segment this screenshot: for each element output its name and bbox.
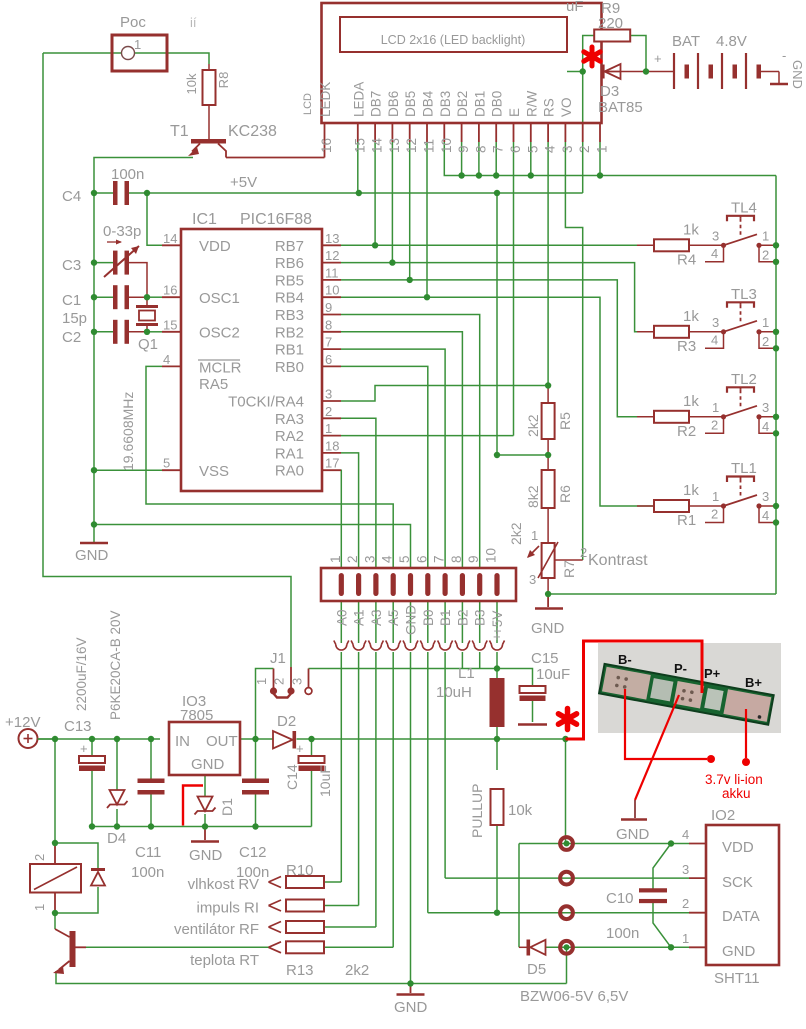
svg-text:10uF: 10uF (317, 765, 333, 797)
svg-text:C3: C3 (62, 257, 81, 274)
svg-text:9: 9 (466, 555, 481, 563)
svg-text:8: 8 (325, 317, 332, 332)
svg-text:+12V: +12V (5, 714, 40, 731)
svg-text:2: 2 (577, 145, 592, 153)
svg-text:D3: D3 (600, 83, 619, 100)
svg-text:10uH: 10uH (436, 684, 472, 701)
svg-text:+: + (296, 741, 304, 756)
svg-text:3: 3 (762, 400, 769, 415)
svg-text:11: 11 (325, 265, 339, 280)
svg-text:DB6: DB6 (386, 91, 401, 117)
svg-text:100n: 100n (111, 166, 144, 183)
svg-text:2: 2 (762, 247, 769, 262)
svg-text:E: E (507, 108, 522, 117)
svg-text:R6: R6 (557, 485, 573, 503)
svg-text:RB2: RB2 (275, 324, 304, 341)
svg-text:2k2: 2k2 (525, 414, 541, 437)
svg-text:13: 13 (325, 231, 339, 246)
svg-text:3: 3 (762, 489, 769, 504)
svg-text:3: 3 (712, 228, 719, 243)
svg-text:B1: B1 (438, 609, 453, 626)
svg-text:16: 16 (163, 283, 177, 298)
svg-text:2: 2 (272, 678, 287, 685)
svg-text:Kontrast: Kontrast (588, 552, 648, 569)
svg-text:RA2: RA2 (275, 428, 304, 445)
svg-text:OUT: OUT (206, 733, 238, 750)
svg-text:LCD 2x16 (LED backlight): LCD 2x16 (LED backlight) (381, 33, 526, 47)
svg-text:DB4: DB4 (421, 90, 436, 117)
svg-text:16: 16 (319, 138, 334, 153)
svg-text:T0CKI/RA4: T0CKI/RA4 (228, 394, 304, 411)
svg-text:C2: C2 (62, 329, 81, 346)
svg-text:RA0: RA0 (275, 463, 304, 480)
svg-text:19.6608MHz: 19.6608MHz (120, 392, 136, 471)
svg-text:R4: R4 (677, 251, 696, 268)
svg-text:2k2: 2k2 (345, 962, 369, 979)
svg-text:3: 3 (529, 572, 536, 587)
svg-text:RB0: RB0 (275, 359, 304, 376)
svg-text:Q1: Q1 (138, 336, 158, 353)
svg-text:4: 4 (762, 508, 769, 523)
svg-text:4: 4 (711, 246, 718, 261)
svg-text:+: + (80, 741, 88, 756)
svg-text:1: 1 (712, 489, 719, 504)
svg-text:+5V: +5V (490, 611, 505, 635)
svg-text:15p: 15p (62, 310, 87, 327)
svg-text:GND: GND (790, 60, 805, 89)
svg-text:1: 1 (712, 400, 719, 415)
svg-text:2200uF/16V: 2200uF/16V (74, 637, 89, 711)
svg-text:1: 1 (762, 315, 769, 330)
svg-text:RB7: RB7 (275, 238, 304, 255)
svg-text:7: 7 (491, 145, 506, 153)
svg-text:2: 2 (580, 545, 587, 560)
svg-text:BAT: BAT (672, 33, 700, 50)
svg-text:VDD: VDD (722, 839, 754, 856)
svg-text:1: 1 (32, 904, 47, 911)
svg-text:3: 3 (325, 387, 332, 402)
svg-text:P-: P- (674, 661, 687, 676)
svg-text:1k: 1k (683, 221, 699, 238)
svg-text:GND: GND (616, 826, 650, 843)
svg-text:2: 2 (32, 854, 47, 861)
svg-text:2: 2 (762, 334, 769, 349)
svg-text:15: 15 (163, 317, 177, 332)
svg-text:A5: A5 (386, 609, 401, 626)
svg-text:SHT11: SHT11 (714, 970, 760, 987)
svg-text:12: 12 (404, 138, 419, 153)
svg-text:4: 4 (711, 332, 718, 347)
svg-text:C14: C14 (284, 764, 300, 790)
svg-text:RB5: RB5 (275, 272, 304, 289)
svg-text:DB2: DB2 (455, 91, 470, 117)
svg-text:11: 11 (422, 139, 437, 153)
svg-text:100n: 100n (606, 925, 639, 942)
svg-text:IC1: IC1 (192, 211, 217, 228)
svg-text:D1: D1 (219, 798, 235, 816)
svg-text:8: 8 (449, 555, 464, 563)
svg-text:B0: B0 (421, 609, 436, 626)
svg-text:GND: GND (722, 943, 756, 960)
svg-text:RA1: RA1 (275, 445, 304, 462)
svg-text:6: 6 (325, 352, 332, 367)
svg-text:impuls RI: impuls RI (196, 900, 259, 917)
svg-text:2: 2 (345, 555, 360, 563)
svg-text:T1: T1 (170, 123, 189, 140)
svg-text:1: 1 (762, 228, 769, 243)
svg-text:15: 15 (352, 138, 367, 153)
svg-text:OSC2: OSC2 (199, 325, 240, 342)
svg-text:13: 13 (387, 138, 402, 153)
svg-text:14: 14 (163, 231, 177, 246)
svg-text:VO: VO (559, 97, 574, 117)
svg-text:R13: R13 (286, 962, 314, 979)
svg-text:18: 18 (325, 438, 339, 453)
svg-text:J1: J1 (270, 650, 286, 667)
svg-text:3: 3 (560, 145, 575, 153)
svg-text:BZW06-5V 6,5V: BZW06-5V 6,5V (520, 988, 628, 1005)
svg-text:3.7v li-ion: 3.7v li-ion (705, 772, 763, 787)
svg-text:1: 1 (328, 555, 343, 563)
svg-text:B3: B3 (473, 609, 488, 626)
svg-text:14: 14 (370, 137, 385, 153)
svg-text:10k: 10k (184, 73, 199, 94)
svg-text:PULLUP: PULLUP (469, 784, 485, 838)
svg-text:SCK: SCK (722, 874, 753, 891)
svg-text:6: 6 (508, 145, 523, 153)
svg-text:RA5: RA5 (199, 376, 228, 393)
svg-text:C4: C4 (62, 188, 81, 205)
svg-text:2: 2 (711, 507, 718, 522)
svg-text:Poc: Poc (120, 14, 146, 31)
svg-text:P+: P+ (704, 666, 721, 681)
svg-text:DB3: DB3 (438, 91, 453, 117)
svg-text:C12: C12 (239, 844, 267, 861)
svg-text:A1: A1 (352, 609, 367, 626)
svg-text:B+: B+ (745, 675, 762, 690)
svg-text:BAT85: BAT85 (598, 99, 643, 116)
svg-text:R5: R5 (557, 412, 573, 430)
svg-text:TL1: TL1 (731, 460, 757, 477)
svg-text:3: 3 (682, 862, 689, 877)
svg-text:VDD: VDD (199, 238, 231, 255)
svg-text:RB4: RB4 (275, 290, 304, 307)
svg-text:7805: 7805 (180, 707, 213, 724)
svg-text:D4: D4 (107, 830, 126, 847)
svg-text:4: 4 (543, 145, 558, 153)
svg-text:5: 5 (525, 145, 540, 153)
svg-text:L1: L1 (458, 665, 475, 682)
svg-text:8k2: 8k2 (525, 485, 541, 508)
svg-text:C15: C15 (531, 650, 559, 667)
svg-text:GND: GND (531, 620, 565, 637)
svg-text:IO2: IO2 (711, 807, 735, 824)
svg-text:5: 5 (397, 555, 412, 563)
svg-text:VSS: VSS (199, 463, 229, 480)
svg-text:RB1: RB1 (275, 342, 304, 359)
svg-text:P6KE20CA-B 20V: P6KE20CA-B 20V (108, 610, 123, 720)
svg-text:GND: GND (404, 605, 419, 635)
svg-text:RB6: RB6 (275, 255, 304, 272)
svg-text:3: 3 (290, 678, 305, 685)
svg-text:7: 7 (325, 335, 332, 350)
svg-text:ventilátor RF: ventilátor RF (174, 921, 259, 938)
svg-text:5: 5 (163, 456, 170, 471)
svg-text:RB3: RB3 (275, 307, 304, 324)
svg-text:3: 3 (362, 555, 377, 563)
svg-text:C13: C13 (64, 718, 92, 735)
svg-text:A0: A0 (334, 609, 349, 626)
svg-text:8: 8 (473, 145, 488, 153)
svg-text:C10: C10 (606, 890, 634, 907)
svg-text:LEDK: LEDK (318, 82, 333, 117)
svg-text:3: 3 (712, 315, 719, 330)
svg-text:1: 1 (325, 421, 332, 436)
svg-text:DB7: DB7 (369, 91, 384, 117)
svg-text:TL3: TL3 (731, 286, 757, 303)
svg-text:4: 4 (682, 827, 689, 842)
svg-text:vlhkost RV: vlhkost RV (188, 876, 259, 893)
svg-text:1: 1 (595, 145, 610, 153)
svg-text:R10: R10 (286, 862, 314, 879)
svg-text:DB5: DB5 (403, 91, 418, 117)
svg-text:A3: A3 (369, 609, 384, 626)
svg-text:1: 1 (254, 678, 269, 685)
svg-text:2: 2 (682, 896, 689, 911)
svg-text:6: 6 (414, 555, 429, 563)
svg-text:KC238: KC238 (228, 123, 277, 140)
svg-text:OSC1: OSC1 (199, 290, 240, 307)
svg-text:R1: R1 (677, 512, 696, 529)
svg-text:DATA: DATA (722, 908, 760, 925)
svg-text:ií: ií (190, 15, 197, 30)
svg-text:0-33p: 0-33p (103, 223, 141, 240)
svg-text:MCLR: MCLR (199, 360, 242, 377)
svg-text:4: 4 (380, 555, 395, 563)
svg-text:TL4: TL4 (731, 199, 757, 216)
svg-text:R2: R2 (677, 423, 696, 440)
svg-text:2k2: 2k2 (508, 522, 524, 545)
svg-text:RS: RS (542, 98, 557, 117)
svg-text:R8: R8 (216, 72, 231, 89)
svg-text:LEDA: LEDA (351, 82, 366, 117)
svg-text:4: 4 (163, 352, 170, 367)
svg-text:GND: GND (75, 547, 109, 564)
svg-text:1: 1 (682, 931, 689, 946)
svg-text:IN: IN (175, 733, 190, 750)
svg-text:D2: D2 (277, 713, 296, 730)
svg-text:TL2: TL2 (731, 371, 757, 388)
svg-text:B2: B2 (455, 609, 470, 626)
svg-text:17: 17 (325, 456, 339, 471)
svg-text:4: 4 (762, 419, 769, 434)
svg-text:RA3: RA3 (275, 411, 304, 428)
svg-text:LCD: LCD (302, 93, 314, 115)
svg-text:1: 1 (134, 37, 141, 52)
svg-text:2: 2 (325, 404, 332, 419)
svg-text:uF: uF (566, 0, 584, 15)
svg-text:1k: 1k (683, 482, 699, 499)
svg-text:1k: 1k (683, 393, 699, 410)
svg-text:PIC16F88: PIC16F88 (240, 211, 312, 228)
svg-text:10uF: 10uF (536, 666, 570, 683)
svg-text:-: - (782, 48, 786, 63)
svg-text:1: 1 (531, 528, 538, 543)
svg-text:7: 7 (432, 555, 447, 563)
svg-text:+5V: +5V (230, 174, 257, 191)
svg-text:B-: B- (618, 652, 632, 667)
svg-text:GND: GND (394, 999, 428, 1016)
svg-text:GND: GND (189, 847, 223, 864)
svg-text:9: 9 (456, 145, 471, 153)
svg-text:220: 220 (598, 15, 623, 32)
svg-text:9: 9 (325, 300, 332, 315)
svg-text:C11: C11 (135, 844, 161, 861)
svg-text:+: + (654, 51, 662, 66)
svg-text:10: 10 (325, 283, 339, 298)
svg-text:2: 2 (711, 417, 718, 432)
svg-text:4.8V: 4.8V (716, 33, 747, 50)
svg-text:R3: R3 (677, 338, 696, 355)
svg-text:R/W: R/W (524, 91, 539, 118)
svg-text:100n: 100n (131, 864, 164, 881)
svg-text:12: 12 (325, 248, 339, 263)
svg-text:DB1: DB1 (472, 91, 487, 117)
svg-text:10k: 10k (508, 802, 533, 819)
svg-text:teplota RT: teplota RT (190, 952, 259, 969)
svg-text:10: 10 (484, 548, 499, 563)
svg-text:10: 10 (439, 138, 454, 153)
svg-text:akku: akku (722, 786, 751, 801)
svg-text:GND: GND (191, 756, 225, 773)
svg-text:C1: C1 (62, 292, 81, 309)
svg-text:R7: R7 (561, 560, 577, 578)
svg-text:1k: 1k (683, 308, 699, 325)
svg-text:DB0: DB0 (490, 91, 505, 117)
svg-text:D5: D5 (527, 961, 546, 978)
